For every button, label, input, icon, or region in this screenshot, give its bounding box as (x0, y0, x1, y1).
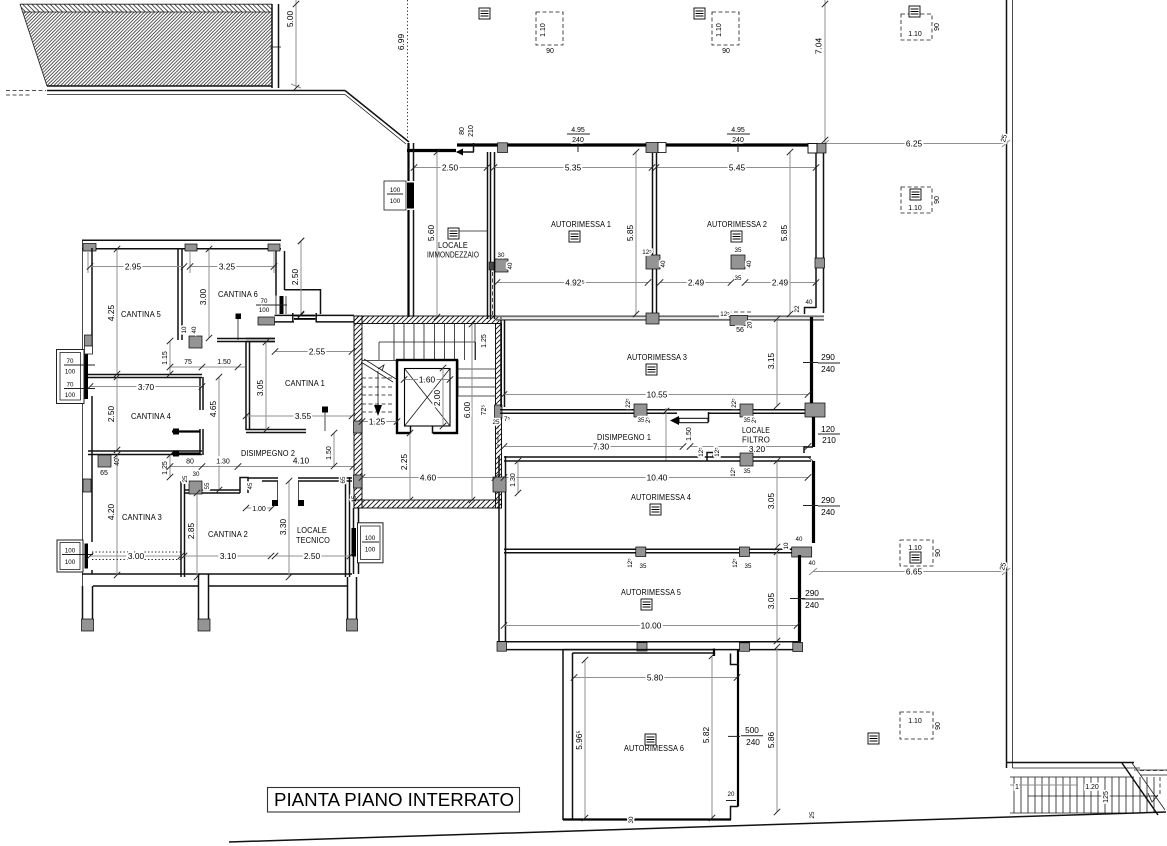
svg-text:35: 35 (745, 563, 752, 570)
dimension 3.25 (190, 266, 274, 268)
pillar aut5 bottom far right (793, 643, 803, 652)
wall disimpegno1 bottom / aut4 top (504, 456, 811, 458)
pillar aut4 bottom right (739, 547, 749, 557)
svg-text:240: 240 (821, 364, 835, 374)
svg-text:40: 40 (191, 326, 198, 333)
svg-text:35: 35 (735, 275, 742, 282)
pillar aut2 mid (731, 255, 745, 269)
wall cantina4/cantina3 (88, 450, 202, 452)
garage top wall (457, 143, 812, 146)
strip mid edge line (23, 11, 272, 13)
cantina bottom wall outer line seg2 (209, 585, 347, 587)
svg-text:2.49: 2.49 (688, 278, 705, 288)
svg-text:AUTORIMESSA 5: AUTORIMESSA 5 (621, 588, 681, 597)
svg-text:5.00: 5.00 (285, 11, 295, 28)
pillar aut5 bottom left (637, 643, 647, 652)
dim 1.50 door (202, 366, 245, 368)
window 290/240 aut4 (803, 495, 840, 517)
aut6 left wall (562, 650, 564, 820)
svg-text:3.00: 3.00 (198, 289, 208, 306)
svg-text:2.49: 2.49 (772, 278, 789, 288)
svg-text:90: 90 (934, 23, 941, 31)
svg-text:210: 210 (468, 125, 475, 137)
dim 3.20 (690, 446, 808, 448)
svg-text:7.04: 7.04 (814, 38, 824, 55)
pillar left of niche window (258, 317, 275, 325)
dashed door right wall (497, 418, 499, 448)
svg-text:2⁵: 2⁵ (645, 417, 652, 423)
dim 1.00 (246, 507, 272, 509)
pillar top-right (268, 244, 280, 251)
svg-text:3.70: 3.70 (138, 382, 155, 392)
wall cantina6 bottom (217, 338, 275, 340)
svg-text:CANTINA 3: CANTINA 3 (122, 513, 162, 522)
locale tecnico door jamb right (298, 481, 300, 502)
jog wall cantina2 (240, 478, 248, 494)
dotted property line 6.99 (407, 0, 409, 143)
immondezzaio top wall (407, 149, 456, 152)
stub down from c5/c4 wall (199, 377, 201, 410)
pillar at c5/c6 door (189, 336, 202, 348)
svg-text:1.10: 1.10 (540, 23, 547, 37)
svg-text:35: 35 (735, 247, 742, 254)
stair dashed treads left flight (362, 378, 394, 412)
aut4/aut5 left wall (498, 456, 500, 642)
pillar mid aut1/2 (646, 255, 660, 269)
pier stub mid (198, 574, 200, 620)
svg-text:1.10: 1.10 (908, 545, 922, 552)
dim 3.70 (90, 386, 202, 388)
svg-text:1.10: 1.10 (908, 205, 922, 212)
stair arrow head (1148, 793, 1158, 802)
svg-text:7.30: 7.30 (593, 442, 610, 452)
locale tecnico right wall (345, 477, 347, 577)
dim 4.25 rotated (116, 249, 118, 374)
svg-text:10.00: 10.00 (641, 621, 662, 631)
pillar aut3 wall right (740, 404, 753, 417)
boundary double line below strip (47, 90, 345, 92)
strip bottom edge (47, 85, 272, 87)
lower hook (172, 452, 200, 454)
svg-text:40: 40 (660, 260, 667, 267)
pillar aut5 bottom far-left (497, 642, 507, 652)
boundary dashes left of strip (6, 90, 46, 92)
pillar 30/40 on wall (495, 259, 508, 272)
jog mid (707, 453, 713, 462)
dim chain y282: 2.49 left (660, 282, 731, 284)
double window 70/100 x2 box (57, 350, 96, 404)
dim chain y282: 2.49 right (745, 282, 816, 284)
pillar on left wall (354, 421, 363, 433)
aut6 right wall (737, 650, 739, 807)
svg-text:4.92⁵: 4.92⁵ (565, 278, 585, 288)
svg-text:2⁵: 2⁵ (751, 417, 758, 423)
svg-text:4.65: 4.65 (208, 401, 218, 418)
svg-text:3.55: 3.55 (295, 411, 312, 421)
title box: PIANTA PIANO INTERRATO (268, 788, 520, 813)
svg-text:40: 40 (507, 262, 514, 269)
svg-text:CANTINA 5: CANTINA 5 (121, 310, 161, 319)
dim 6.00 rotated (471, 324, 473, 500)
pillar on left wall lower (354, 475, 363, 488)
svg-text:500: 500 (745, 725, 759, 735)
svg-text:100: 100 (65, 548, 76, 555)
svg-text:1.50: 1.50 (326, 446, 333, 460)
svg-text:3.10: 3.10 (220, 551, 237, 561)
aut6 bottom wall (563, 818, 731, 820)
svg-text:35: 35 (638, 417, 645, 424)
svg-text:12⁵: 12⁵ (714, 447, 721, 457)
shaft bottom hatched wall (354, 500, 502, 508)
vent aut6 (645, 734, 656, 745)
svg-text:290: 290 (805, 588, 819, 598)
svg-text:6.65: 6.65 (906, 567, 923, 577)
svg-text:100: 100 (65, 559, 76, 566)
svg-text:100: 100 (390, 187, 401, 194)
door hinge dot cantina6 (236, 314, 242, 320)
pier stub left (82, 586, 84, 620)
dim 1.25 elevator left (362, 421, 397, 423)
svg-text:4.60: 4.60 (420, 473, 437, 483)
svg-text:70: 70 (67, 358, 74, 365)
svg-text:30: 30 (628, 816, 635, 823)
window 100/100 right of locale tecnico (352, 523, 384, 563)
strip right edge tick (270, 46, 281, 48)
dim 3.05 rotated aut5 (776, 552, 778, 641)
svg-text:TECNICO: TECNICO (296, 536, 330, 545)
dim 3.00 rotated (208, 249, 210, 338)
svg-text:12⁵: 12⁵ (730, 467, 737, 477)
pillar on aut2 right wall (815, 258, 825, 268)
dim 4.60 (362, 477, 495, 479)
dimension 2.50 niche vertical (300, 241, 302, 315)
cantina1 left wall (245, 342, 247, 430)
dashed lightwell square 3 (901, 6, 941, 40)
svg-text:20: 20 (747, 321, 754, 328)
shaft top hatched wall (354, 316, 501, 324)
svg-text:5.86: 5.86 (766, 732, 776, 749)
svg-text:12⁵: 12⁵ (627, 558, 634, 568)
big pillar 56/20 (730, 316, 748, 326)
svg-text:72⁵: 72⁵ (481, 405, 488, 416)
dim 4.10 (238, 466, 353, 468)
dim 10.00 (504, 625, 797, 627)
dim 2.50 tecnico (275, 555, 350, 557)
svg-text:20: 20 (728, 791, 735, 798)
aut5 right wall (798, 555, 801, 641)
svg-text:56: 56 (736, 327, 744, 334)
svg-text:2.85: 2.85 (186, 523, 196, 540)
disimpegno1 door jamb step (708, 412, 710, 422)
dim 2.25 rotated right (409, 433, 411, 466)
svg-text:80: 80 (186, 459, 194, 466)
svg-text:25: 25 (182, 475, 189, 482)
bottom site boundary sloped line (229, 812, 1166, 842)
external stair treads bottom right (1010, 777, 1158, 813)
corner boxes top right (808, 144, 817, 154)
svg-text:70: 70 (67, 382, 74, 389)
svg-text:1.15: 1.15 (162, 351, 169, 365)
svg-text:100: 100 (365, 547, 376, 554)
immondezzaio right wall (487, 152, 489, 319)
svg-text:120: 120 (821, 424, 835, 434)
svg-text:6.25: 6.25 (906, 139, 923, 149)
svg-text:30: 30 (498, 252, 505, 259)
svg-text:5.45: 5.45 (729, 163, 746, 173)
dim 4.20 rotated (116, 455, 118, 575)
svg-text:35: 35 (744, 417, 751, 424)
svg-text:CANTINA 1: CANTINA 1 (285, 379, 325, 388)
dim 3.00 (90, 555, 181, 557)
svg-text:40: 40 (796, 536, 803, 543)
locale tecnico top wall left part (248, 477, 278, 479)
dim 4.65 rotated (218, 377, 220, 490)
aut4 bottom wall outline (504, 548, 812, 550)
svg-text:4.95: 4.95 (571, 127, 585, 134)
dim 75 (170, 366, 202, 368)
dim 80 (170, 466, 202, 468)
hook wall right of c4/c3 (199, 429, 201, 455)
dimension 6.65 (813, 571, 1006, 573)
window 100/100 immondezzaio (384, 181, 414, 210)
boundary corner horizontal double line bottom right (1007, 762, 1135, 764)
dim 2.00 rotated (442, 368, 444, 426)
dotted hidden line cantina3 (92, 551, 181, 553)
pillar aut4 left wall (493, 477, 506, 492)
svg-text:100: 100 (390, 198, 401, 205)
svg-text:4.95: 4.95 (731, 127, 745, 134)
dim 1.30 (202, 466, 238, 468)
window 290/240 aut5 (790, 588, 824, 610)
locale tecnico door jamb left (277, 481, 279, 502)
small gray box left wall (83, 479, 91, 492)
dim 2.55 (275, 351, 352, 353)
svg-text:5.96⁵: 5.96⁵ (574, 730, 584, 750)
stair cut diagonal (361, 362, 393, 382)
svg-text:40: 40 (746, 260, 753, 267)
svg-text:100: 100 (65, 392, 76, 399)
svg-text:5.85: 5.85 (779, 225, 789, 242)
dim 1.15 rotated (169, 341, 171, 374)
shaft right hatched wall (496, 324, 502, 509)
svg-text:90: 90 (934, 196, 941, 204)
cantina1 bottom wall (246, 429, 306, 431)
svg-text:1.10: 1.10 (908, 718, 922, 725)
svg-text:22: 22 (794, 305, 801, 312)
dimension end ticks (87, 1, 828, 821)
svg-text:12⁵: 12⁵ (642, 249, 652, 256)
locale tecnico top wall right part (298, 477, 352, 479)
vent grille lone bottom-right (868, 733, 879, 744)
pillar aut3 wall left (634, 404, 647, 417)
dimension 5.00 vertical (295, 0, 297, 88)
svg-text:2.50: 2.50 (442, 163, 459, 173)
door jog 120/210 (804, 447, 813, 453)
disimpegno1 door arrow (670, 416, 679, 425)
vent grille top 1 (479, 8, 490, 19)
svg-text:100: 100 (65, 369, 76, 376)
stair dim 1.20 (1010, 784, 1078, 786)
dim 5.85 rotated aut1 (635, 152, 637, 314)
pier stub right (347, 577, 349, 620)
elevator door gap (410, 428, 433, 435)
dim 5.82 rotated (711, 656, 713, 818)
pillar at garage top left (498, 143, 508, 153)
label 500/240 tick (728, 735, 740, 737)
pillar top-left corner (83, 244, 96, 252)
below-shaft room left wall (353, 508, 355, 574)
svg-text:40: 40 (806, 299, 813, 306)
stair mid landing line (379, 341, 475, 343)
aut6 right wall top jog (731, 654, 740, 665)
dim 3.55 (246, 415, 352, 417)
dim 1.60 (404, 379, 450, 381)
pillar aut4 bottom left (636, 547, 646, 557)
dashed lightwell square 2 (712, 12, 739, 55)
svg-text:6.99: 6.99 (396, 34, 406, 51)
svg-text:1: 1 (1015, 784, 1019, 791)
aut2 right wall double (815, 153, 817, 308)
cantina1 top wall (246, 338, 275, 340)
aut3 left wall pair (500, 320, 502, 407)
svg-text:240: 240 (572, 137, 584, 144)
svg-text:30: 30 (193, 471, 200, 478)
svg-text:1.30: 1.30 (216, 459, 230, 466)
upper hook (172, 430, 200, 432)
dim 2.85 rotated (196, 493, 198, 577)
svg-text:3.20: 3.20 (749, 444, 766, 454)
svg-text:90: 90 (935, 549, 942, 557)
disimpegno1 door leaf (679, 418, 708, 422)
wall cantina5/cantina4 (88, 374, 202, 376)
svg-text:12⁵: 12⁵ (698, 447, 705, 457)
cantina left wall outer (82, 240, 84, 353)
svg-text:5.80: 5.80 (647, 673, 664, 683)
dim 3.05 rotated (265, 342, 267, 430)
garage bottom wall aut1/2 lower line (496, 319, 824, 321)
cantina bottom wall inner line (82, 573, 352, 575)
svg-text:5.35: 5.35 (565, 163, 582, 173)
svg-text:3.05: 3.05 (766, 493, 776, 510)
aut6 top wall (563, 649, 714, 651)
svg-text:45: 45 (247, 482, 254, 489)
label 4.95/240 right (727, 127, 750, 152)
dim 2.25 below elevator (409, 433, 411, 500)
stair down arrow (377, 371, 379, 414)
svg-text:210: 210 (822, 435, 836, 445)
svg-text:35: 35 (744, 468, 751, 475)
aut3 right wall lower segment (812, 417, 815, 447)
svg-text:2.25: 2.25 (399, 454, 409, 471)
svg-text:10: 10 (783, 542, 790, 549)
elevator door jambs (410, 427, 412, 434)
hatched existing-building strip top-left: chevron band (20, 4, 272, 12)
cantina bottom wall outer line seg1 (93, 585, 198, 587)
svg-text:240: 240 (732, 137, 744, 144)
svg-text:290: 290 (821, 495, 835, 505)
svg-text:3.00: 3.00 (128, 551, 145, 561)
boundary diagonal to building corner (345, 91, 409, 143)
svg-text:AUTORIMESSA 2: AUTORIMESSA 2 (707, 220, 767, 229)
wall under niche upper line (275, 314, 295, 316)
svg-text:4.25: 4.25 (106, 305, 116, 322)
svg-text:6.00: 6.00 (462, 402, 472, 419)
wall under niche lower line (275, 321, 295, 323)
svg-text:10: 10 (181, 326, 188, 333)
svg-text:75: 75 (184, 359, 192, 366)
svg-text:DISIMPEGNO 2: DISIMPEGNO 2 (241, 449, 295, 458)
pillar above window (85, 335, 93, 346)
svg-text:65: 65 (100, 470, 108, 477)
dim line 1.50 vertical (665, 408, 667, 461)
dim chain y282: 4.92 (497, 282, 648, 284)
vent aut1 (569, 231, 580, 242)
label 4.95/240 left (567, 127, 590, 152)
svg-text:4.10: 4.10 (293, 456, 310, 466)
svg-text:4.20: 4.20 (106, 504, 116, 521)
aut5 bottom wall outline (497, 641, 801, 643)
svg-text:3.05: 3.05 (766, 593, 776, 610)
svg-text:7⁵: 7⁵ (504, 416, 510, 423)
dashed line below pillar (492, 272, 494, 317)
dim 5.60 rotated (436, 152, 438, 317)
partition aut1/aut2 (652, 153, 654, 314)
stair left landing bottom (362, 360, 397, 362)
svg-text:125: 125 (1103, 791, 1110, 803)
dashed lightwell square 5 (900, 540, 942, 566)
svg-text:2.50: 2.50 (304, 551, 321, 561)
svg-text:25: 25 (493, 419, 500, 426)
elevator cross diagonals (405, 369, 451, 427)
svg-text:10.55: 10.55 (647, 390, 668, 400)
dim 1.50 rotated disimpegno2 right (333, 433, 335, 466)
pillar 65 on left wall (98, 455, 111, 467)
svg-text:240: 240 (746, 737, 760, 747)
dashed top right bits (1140, 770, 1167, 772)
big pillar aut3 bottom right (805, 403, 825, 417)
dim 3.15 rotated (776, 319, 778, 406)
niche window bars (294, 315, 315, 317)
svg-text:2.55: 2.55 (309, 347, 326, 357)
door arrow 80/210 (457, 151, 474, 153)
strip left slanted edge (20, 4, 47, 86)
svg-text:3.25: 3.25 (219, 262, 236, 272)
cantina2 top wall (184, 489, 240, 491)
wall aut3 bottom / disimpegno1 top (500, 409, 811, 411)
pillar aut5 bottom right (740, 643, 750, 652)
dim 5.86 rotated (776, 647, 778, 812)
dim 3.30 rotated (288, 481, 290, 577)
svg-text:55: 55 (204, 482, 211, 489)
vent aut3 (646, 364, 657, 375)
svg-text:LOCALE: LOCALE (297, 526, 327, 535)
window 290/240 aut3 (803, 352, 840, 374)
svg-text:1.30: 1.30 (510, 473, 517, 487)
dim 10.55 (504, 394, 808, 396)
jog at aut2 bottom right (805, 308, 817, 315)
stair right flight edge (475, 342, 477, 360)
svg-text:2.50: 2.50 (290, 269, 300, 286)
svg-text:IMMONDEZZAIO: IMMONDEZZAIO (427, 251, 479, 260)
stair landing left vertical (378, 342, 380, 360)
dim 1.25 rotated disimpegno2 (169, 455, 171, 477)
svg-text:22⁵: 22⁵ (731, 398, 738, 408)
dimension 6.25 (825, 143, 1006, 145)
pillar cantina2 top (189, 481, 202, 494)
svg-text:22⁵: 22⁵ (625, 398, 632, 408)
svg-text:25: 25 (809, 811, 816, 818)
svg-text:1.50: 1.50 (686, 427, 693, 441)
